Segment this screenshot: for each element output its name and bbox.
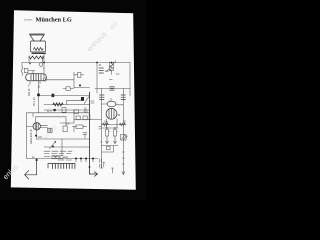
- resistor R4 small box: [74, 110, 79, 114]
- dashes row3: [44, 156, 58, 158]
- T1 winding leads: [29, 56, 43, 63]
- wire: rail y112.8: [27, 112, 90, 114]
- wire y128: [102, 127, 118, 129]
- white schematic page (slightly rotated): [11, 10, 136, 190]
- junction dot below V4: [35, 135, 37, 137]
- V3 internals: [109, 109, 114, 119]
- wire: rail y110: [44, 109, 90, 111]
- heater junction dot 2: [80, 158, 82, 160]
- wire y152 right: [102, 146, 114, 152]
- speaker baseline: [32, 52, 46, 54]
- junction dot under rail: [36, 159, 38, 161]
- svg-text:10n: 10n: [104, 121, 109, 124]
- V4 right leads: [40, 125, 47, 127]
- wire y87.5: [74, 87, 90, 89]
- wire y123 segment: [60, 122, 74, 124]
- V4 top lead: [35, 117, 37, 123]
- terminal pair a: [100, 159, 102, 167]
- fuse box: [107, 146, 111, 149]
- resistor R5 box: [109, 63, 113, 71]
- voice coil winding in speaker: [34, 48, 44, 51]
- wire: vertical bus at x44: [43, 54, 45, 78]
- wire y124.5: [102, 124, 127, 126]
- wire hook to C4: [67, 101, 82, 105]
- wire short: [28, 71, 35, 74]
- svg-text:10n: 10n: [66, 123, 71, 126]
- coupling bars right of bus: [91, 101, 94, 103]
- heater junction dot 4: [92, 158, 94, 160]
- arrow to left (mains): [25, 159, 37, 180]
- capacitor C13 on rail y88.5: [110, 86, 114, 90]
- C5 lead from heater line: [65, 117, 67, 126]
- heater ticks: [76, 159, 93, 162]
- R5 zigzag inside: [110, 63, 113, 71]
- heater junction dots: [75, 158, 77, 160]
- wire: vertical x97 from rail: [96, 63, 98, 94]
- svg-text:400: 400: [84, 110, 89, 113]
- component C5 box: [63, 126, 67, 132]
- capacitor C6 plates: [83, 133, 87, 139]
- junction dot x111 top rail: [111, 62, 113, 64]
- resistor R3 box: [78, 73, 81, 78]
- capacitor C12 plates: [99, 127, 102, 129]
- capacitor C11 small box on rail: [52, 94, 55, 97]
- wire: vertical x74: [73, 110, 75, 123]
- svg-text:2.: 2.: [101, 141, 103, 144]
- dashes row4: [58, 159, 72, 161]
- junction dot x44 rail: [43, 62, 45, 64]
- wire: rail y95.5: [39, 95, 90, 97]
- resistor R9 box: [83, 116, 87, 120]
- R6 leads: [73, 127, 87, 132]
- comb teeth: [53, 164, 75, 169]
- tick T1: [103, 163, 105, 168]
- svg-text:11,5: 11,5: [47, 110, 52, 113]
- wire: left drop: [21, 63, 23, 68]
- junction dot: [52, 146, 54, 148]
- svg-text:25 a 10: 25 a 10: [32, 97, 36, 106]
- junction dot sub: [79, 84, 81, 86]
- R3 leads: [74, 74, 84, 76]
- wire: top HT rail: [22, 62, 130, 64]
- svg-text:904 W: 904 W: [27, 88, 31, 96]
- wire x111 drop: [109, 71, 112, 80]
- tube socket V4 (top view): [33, 123, 40, 130]
- wire: x123 vertical: [122, 89, 124, 175]
- dashed shield row1: [44, 150, 72, 152]
- svg-text:AEG 904 W: AEG 904 W: [29, 129, 33, 144]
- terminal block boxes: [52, 156, 55, 159]
- resistor R6 box: [76, 125, 83, 128]
- wire to V4 from frame: [27, 126, 34, 128]
- dashed shield row2: [44, 152, 71, 154]
- V3 lead dots: [106, 127, 108, 129]
- wire rail y88.5: [95, 88, 130, 90]
- resistor R1 zigzag: [53, 103, 63, 106]
- arrow to right: [90, 172, 98, 177]
- capacitor C10 hatched: [121, 135, 127, 141]
- C7/C8 leads: [102, 136, 119, 146]
- heater junction dot 3: [85, 158, 87, 160]
- tube V3 circle: [106, 108, 117, 119]
- node dot V3 right: [114, 127, 116, 129]
- trimmer arrow: [84, 97, 89, 105]
- wire: vertical x74 sub: [73, 72, 75, 88]
- capacitor C1 box: [62, 108, 66, 113]
- capacitor C9 on rail: [39, 63, 43, 67]
- terminal block box 3: [60, 156, 63, 159]
- wire: rail y104.5: [44, 104, 90, 106]
- electrolytic C8: [113, 130, 116, 137]
- resistor R7 small box: [66, 87, 70, 91]
- x101.5 tail: [100, 145, 103, 168]
- wire: rail y119.5: [74, 119, 102, 121]
- terminal block box 2: [56, 156, 59, 159]
- loudspeaker LS1 magnet body: [31, 41, 46, 52]
- resistor R8 box: [76, 116, 80, 120]
- comb connector strip: [48, 164, 75, 169]
- field coil squiggle: [21, 67, 23, 76]
- wire: rail y147: [44, 146, 90, 148]
- junction dot: [111, 88, 113, 90]
- junction dot on top rail: [96, 62, 98, 64]
- wire: heater line y116.8: [33, 113, 66, 117]
- x123 end arrow: [122, 172, 125, 175]
- output tube V1 envelope: [26, 74, 47, 81]
- V3 cathode leads: [106, 119, 117, 129]
- left frame vertical: [26, 113, 28, 159]
- C10 hatching: [122, 135, 127, 140]
- V2 leads: [102, 103, 124, 106]
- tiny value labels: [27, 64, 129, 159]
- wire: x101 vertical: [101, 89, 103, 146]
- wire: x62 drop: [61, 139, 63, 155]
- output transformer T1 winding: [29, 56, 44, 59]
- terminal circle: [43, 78, 46, 81]
- R5 variable arrow: [107, 61, 116, 72]
- small tube V2 oval: [107, 101, 116, 107]
- resistor R11 zigzag: [120, 123, 126, 125]
- watermark diagonal text fragments: [1, 19, 119, 181]
- black photo background: [0, 0, 146, 200]
- V1 pin ticks: [30, 81, 40, 85]
- svg-text:100: 100: [64, 156, 69, 159]
- V4 bottom lead: [36, 130, 38, 139]
- R7 lead: [63, 88, 74, 90]
- IF coil L1 bars: [99, 68, 104, 73]
- resistor R10 zigzag: [103, 123, 109, 125]
- electrolytic C7: [106, 130, 109, 137]
- main bus x89.5: [89, 92, 91, 174]
- wire: rail from terminal: [47, 79, 74, 81]
- IF transformer L2 left bars: [100, 95, 105, 99]
- loudspeaker LS1 cone: [30, 34, 45, 41]
- svg-text:München LG: München LG: [36, 16, 72, 23]
- poti arrow: [50, 141, 56, 148]
- wire: bottom rail: [27, 158, 99, 160]
- C7/C8 lead hooks: [106, 141, 117, 144]
- junction square on bus: [37, 94, 40, 97]
- small tube V5 hatched: [48, 128, 52, 132]
- node dot on rail: [29, 63, 31, 65]
- bus junction dot: [89, 166, 91, 168]
- V4 internals: [35, 123, 38, 130]
- V1 grid hatching: [31, 74, 41, 80]
- left bus x38.5: [38, 81, 40, 113]
- IF transformer L2 right bars: [121, 95, 126, 99]
- junction square: [54, 109, 56, 111]
- wire: rail y139: [37, 138, 90, 140]
- coupling cap C4 (black): [81, 97, 84, 101]
- svg-text:Lorenz: Lorenz: [24, 18, 33, 22]
- svg-text:200: 200: [38, 136, 43, 139]
- svg-text:100: 100: [105, 70, 110, 73]
- x123 cross ticks: [122, 152, 124, 164]
- grid cap box: [24, 68, 28, 72]
- tick T2: [112, 168, 114, 173]
- V5 internals: [49, 128, 51, 132]
- wire: right frame drop: [129, 63, 131, 97]
